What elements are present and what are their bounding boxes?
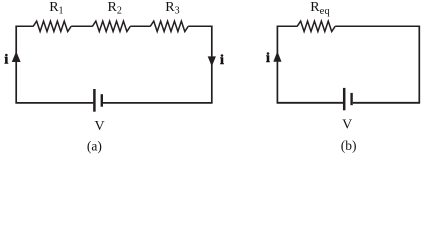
wire: circuit (b) bottom-right segment xyxy=(353,102,420,104)
resistor Req xyxy=(297,21,335,31)
wire: circuit (a) bottom-right segment xyxy=(103,102,213,104)
svg-text:(a): (a) xyxy=(87,138,102,153)
current arrow (b) left, pointing up xyxy=(273,51,281,62)
wire: circuit (a) top segment between R1 and R2 xyxy=(71,25,92,27)
resistor R1 xyxy=(33,21,71,31)
wire: circuit (a) top-left segment xyxy=(15,25,33,27)
battery V (b): short negative plate xyxy=(350,93,352,105)
wire: circuit (b) bottom-left segment xyxy=(277,102,344,104)
wire: circuit (a) bottom-left segment xyxy=(15,102,93,104)
wire: circuit (a) left vertical wire xyxy=(15,26,17,103)
svg-text:i: i xyxy=(220,53,224,68)
wire: circuit (b) left vertical wire xyxy=(276,26,278,103)
wire: circuit (a) top-right segment xyxy=(188,25,212,27)
svg-text:(b): (b) xyxy=(341,138,357,153)
battery V (a): long positive plate xyxy=(93,89,96,112)
svg-text:V: V xyxy=(342,118,352,133)
svg-text:R3: R3 xyxy=(165,0,179,17)
svg-text:i: i xyxy=(4,52,8,67)
wire: circuit (b) right vertical wire xyxy=(418,26,420,103)
resistor R3 xyxy=(150,21,188,31)
current arrow (a) right, pointing down xyxy=(208,56,216,66)
svg-text:R1: R1 xyxy=(49,0,63,17)
resistor R2 xyxy=(92,21,130,31)
svg-text:V: V xyxy=(94,119,104,134)
wire: circuit (a) right vertical wire xyxy=(211,26,213,103)
current arrow (a) left, pointing up xyxy=(12,51,21,62)
battery V (a): short negative plate xyxy=(101,94,103,107)
svg-text:i: i xyxy=(266,51,270,66)
wire: circuit (a) top segment between R2 and R3 xyxy=(130,25,150,27)
svg-text:Req: Req xyxy=(310,0,330,17)
battery V (b): long positive plate xyxy=(343,88,346,110)
wire: circuit (b) top-left segment xyxy=(277,25,298,27)
svg-text:R2: R2 xyxy=(108,0,122,17)
wire: circuit (b) top-right segment xyxy=(335,25,420,27)
